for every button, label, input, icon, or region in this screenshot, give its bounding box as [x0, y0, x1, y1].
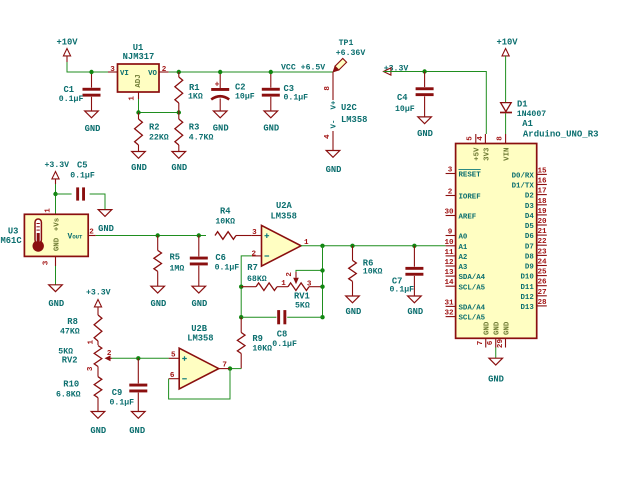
wire R9 to U2B out [230, 368, 241, 370]
junction out/feedback [320, 244, 324, 248]
svg-text:31: 31 [444, 299, 454, 307]
svg-text:D7: D7 [525, 243, 534, 251]
svg-text:C1: C1 [64, 85, 75, 95]
svg-text:GND: GND [171, 163, 187, 173]
wire C5 right to gnd [90, 194, 105, 210]
capacitor C8 [272, 310, 297, 349]
junction C1 [89, 70, 93, 74]
junction R1/R3 [177, 110, 181, 114]
svg-text:VOUT: VOUT [68, 233, 84, 242]
resistor R2 [135, 113, 169, 152]
svg-text:C4: C4 [397, 93, 408, 103]
resistor R6 [349, 246, 383, 296]
ground C2 [213, 111, 229, 134]
svg-text:C9: C9 [112, 388, 123, 398]
svg-text:M61C: M61C [1, 236, 23, 246]
ground U3 [48, 285, 64, 309]
svg-text:LM358: LM358 [341, 115, 367, 125]
pin 27 D12 [520, 289, 547, 302]
svg-text:LM358: LM358 [187, 333, 213, 343]
svg-text:C5: C5 [77, 160, 88, 170]
ground C3 [263, 111, 279, 134]
svg-text:4: 4 [477, 136, 485, 141]
svg-text:3: 3 [87, 366, 95, 371]
svg-text:0.1µF: 0.1µF [215, 263, 240, 272]
wire Vout rail [96, 235, 206, 237]
svg-text:10µF: 10µF [395, 105, 415, 114]
svg-text:20: 20 [537, 218, 547, 226]
svg-text:28: 28 [537, 299, 547, 307]
power +3.3V R8 [86, 289, 111, 315]
svg-text:8: 8 [497, 136, 505, 141]
power +10V right [496, 38, 518, 56]
junction C9 [136, 356, 140, 360]
pin 12 A3 [444, 259, 467, 272]
svg-text:1MΩ: 1MΩ [170, 264, 185, 273]
svg-text:8: 8 [324, 86, 332, 91]
capacitor C7 [390, 246, 424, 296]
junction R1 top [177, 70, 181, 74]
wire +10V to D1 [505, 56, 507, 103]
capacitor C6 [190, 236, 239, 287]
resistor R7 [241, 263, 288, 291]
svg-text:GND: GND [54, 237, 62, 251]
junction C8 right [320, 315, 324, 319]
svg-text:R3: R3 [189, 123, 200, 133]
pin 30 AREF [444, 209, 476, 222]
svg-text:7: 7 [222, 362, 227, 370]
pin 26 D11 [520, 279, 547, 292]
svg-text:RESET: RESET [459, 172, 482, 180]
svg-text:3: 3 [307, 280, 312, 288]
svg-text:R2: R2 [149, 123, 160, 133]
ground R10 [90, 412, 106, 437]
wire U2B feedback loop [169, 369, 230, 399]
wire VO to VCC [169, 71, 333, 73]
pin 7 GND [477, 321, 492, 347]
svg-text:GND: GND [345, 307, 361, 317]
svg-text:1: 1 [88, 339, 96, 344]
junction C5 [53, 192, 57, 196]
resistor R1 [175, 72, 203, 113]
svg-text:5: 5 [171, 351, 176, 359]
svg-text:D2: D2 [525, 193, 534, 201]
svg-text:GND: GND [494, 321, 502, 335]
wire arduino gnd [495, 348, 497, 359]
pin 2 IOREF [446, 189, 481, 202]
power +10V left [56, 38, 78, 63]
svg-text:D11: D11 [520, 284, 534, 292]
resistor R8 [60, 315, 102, 345]
svg-text:19: 19 [537, 208, 547, 216]
svg-text:24: 24 [537, 259, 547, 267]
svg-text:11: 11 [444, 249, 454, 257]
svg-text:14: 14 [444, 279, 454, 287]
pin 31 SDA/A4 [444, 299, 485, 312]
svg-text:2: 2 [448, 189, 453, 197]
svg-text:6: 6 [170, 372, 175, 380]
svg-text:A1: A1 [522, 119, 533, 129]
svg-text:1: 1 [45, 208, 53, 213]
svg-text:13: 13 [444, 269, 454, 277]
svg-text:GND: GND [85, 124, 101, 134]
pin 16 D1/TX [512, 178, 547, 191]
svg-text:4.7KΩ: 4.7KΩ [189, 133, 214, 142]
svg-text:GND: GND [263, 124, 279, 134]
svg-text:V-: V- [331, 120, 339, 129]
ground C9 [129, 412, 145, 437]
svg-text:D12: D12 [520, 294, 533, 302]
svg-text:3V3: 3V3 [484, 147, 492, 161]
pin 19 D4 [525, 208, 547, 221]
svg-text:1KΩ: 1KΩ [188, 93, 203, 102]
svg-text:U2C: U2C [341, 103, 358, 113]
svg-text:R1: R1 [189, 83, 200, 93]
wire C8 row right [287, 316, 322, 318]
svg-text:SCL/A5: SCL/A5 [459, 284, 486, 292]
pin 17 D2 [525, 188, 547, 201]
pin 14 SCL/A5 [444, 279, 485, 292]
ground C5 [98, 210, 114, 234]
wire U2A minus branch [241, 256, 252, 317]
svg-text:GND: GND [326, 165, 342, 175]
svg-text:NJM317: NJM317 [123, 52, 155, 62]
svg-text:GND: GND [407, 307, 423, 317]
svg-text:23: 23 [537, 248, 547, 256]
svg-text:GND: GND [191, 299, 207, 309]
svg-text:0.1µF: 0.1µF [110, 399, 135, 408]
junction ADJ/R2 [136, 110, 140, 114]
pin 8 VIN [497, 134, 512, 161]
test point TP1 [331, 39, 365, 74]
ground R5 [150, 286, 166, 309]
wire C5 left [56, 193, 72, 195]
wire ADJ row [139, 112, 179, 114]
svg-text:GND: GND [488, 375, 504, 385]
svg-text:V+: V+ [331, 100, 339, 109]
svg-text:D5: D5 [525, 223, 534, 231]
svg-text:12: 12 [444, 259, 454, 267]
svg-text:U3: U3 [8, 227, 19, 237]
svg-text:IOREF: IOREF [459, 194, 481, 202]
svg-text:+10V: +10V [496, 38, 518, 48]
wire 3V3 rail [384, 72, 487, 135]
ground C1 [85, 111, 101, 134]
svg-text:+6.36V: +6.36V [336, 49, 366, 58]
svg-text:VI: VI [120, 70, 129, 78]
svg-text:SDA/A4: SDA/A4 [459, 274, 486, 282]
svg-text:3: 3 [448, 167, 453, 175]
svg-text:RV2: RV2 [62, 356, 78, 366]
svg-text:GND: GND [48, 299, 64, 309]
junction C8 left [239, 315, 243, 319]
svg-text:C2: C2 [235, 82, 246, 92]
svg-text:7: 7 [477, 340, 485, 345]
ground R3 [171, 152, 187, 174]
wire C8 row left [241, 316, 276, 318]
svg-text:D8: D8 [525, 254, 534, 262]
op-amp U2A [252, 201, 309, 266]
svg-text:D4: D4 [525, 213, 534, 221]
svg-text:C3: C3 [284, 84, 295, 94]
ground C4 [417, 117, 433, 139]
svg-text:6: 6 [487, 340, 495, 345]
wire U3 gnd [55, 266, 57, 285]
svg-text:25: 25 [537, 269, 547, 277]
svg-text:32: 32 [444, 310, 454, 318]
svg-text:C8: C8 [277, 330, 288, 340]
svg-text:GND: GND [98, 224, 114, 234]
svg-text:21: 21 [537, 228, 547, 236]
svg-text:26: 26 [537, 279, 547, 287]
potentiometer RV1 [281, 272, 322, 311]
capacitor C9 [110, 358, 148, 411]
svg-text:SCL/A5: SCL/A5 [459, 315, 486, 323]
svg-text:R9: R9 [252, 334, 263, 344]
svg-text:2: 2 [162, 66, 167, 74]
junction C4 [422, 69, 426, 73]
pin 13 SDA/A4 [444, 269, 485, 282]
svg-text:+10V: +10V [56, 38, 78, 48]
svg-text:RV1: RV1 [294, 291, 310, 301]
capacitor C4 [395, 72, 434, 117]
svg-text:3: 3 [110, 66, 115, 74]
junction C6 [197, 233, 201, 237]
svg-text:27: 27 [537, 289, 547, 297]
diode D1 [500, 99, 546, 119]
op-amp U2C power pins [324, 72, 367, 151]
svg-text:GND: GND [417, 129, 433, 139]
svg-text:GND: GND [150, 299, 166, 309]
svg-text:1: 1 [129, 96, 137, 101]
svg-text:ADJ: ADJ [135, 74, 143, 87]
svg-text:1: 1 [281, 280, 286, 288]
ground U2C [326, 151, 342, 176]
svg-text:Arduino_UNO_R3: Arduino_UNO_R3 [523, 130, 599, 140]
junction C3 [269, 70, 273, 74]
sensor U3 M61C [1, 208, 96, 266]
pin 10 A1 [444, 239, 467, 252]
ground arduino [488, 358, 504, 384]
pin 9 A0 [446, 229, 468, 242]
svg-text:3: 3 [252, 229, 257, 237]
svg-text:A0: A0 [459, 234, 468, 242]
op-amp U2B [169, 324, 230, 389]
svg-text:GND: GND [484, 321, 492, 335]
pin 15 D0/RX [512, 167, 547, 180]
wire wiper to U2B plus [112, 357, 169, 359]
svg-text:A3: A3 [459, 264, 468, 272]
svg-text:18: 18 [537, 198, 547, 206]
svg-text:22: 22 [537, 238, 547, 246]
wire +3.3V to U3 [55, 184, 57, 214]
wire main top rail [67, 62, 108, 72]
wire ADJ down [138, 99, 140, 113]
svg-text:A2: A2 [459, 254, 468, 262]
pin 3 RESET [446, 167, 482, 180]
svg-text:10KΩ: 10KΩ [215, 217, 235, 226]
junction C2 [218, 70, 222, 74]
junction U2B out [228, 366, 232, 370]
svg-text:10KΩ: 10KΩ [252, 345, 272, 354]
svg-text:LM358: LM358 [271, 211, 297, 221]
svg-text:3: 3 [43, 260, 51, 265]
svg-text:+3.3V: +3.3V [45, 161, 70, 170]
capacitor C5 [70, 160, 95, 200]
pin 29 GND [497, 321, 512, 348]
svg-text:4: 4 [324, 134, 332, 139]
svg-text:17: 17 [537, 188, 547, 196]
junction R7 left [239, 285, 243, 289]
svg-text:D1: D1 [517, 99, 528, 109]
pin 23 D8 [525, 248, 547, 261]
pin 6 GND [487, 321, 502, 347]
wire feedback vertical [322, 246, 324, 317]
svg-text:10: 10 [444, 239, 454, 247]
svg-text:D1/TX: D1/TX [512, 183, 535, 191]
junction RV1 right [320, 285, 324, 289]
svg-text:+: + [215, 81, 220, 90]
wire RV1 wiper [296, 270, 323, 272]
svg-text:R4: R4 [220, 207, 231, 217]
capacitor C3 [262, 72, 308, 111]
junction wiper [320, 268, 324, 272]
pin 5 +5V [467, 134, 482, 161]
svg-text:VO: VO [148, 70, 157, 78]
svg-text:2: 2 [286, 272, 294, 277]
svg-text:D9: D9 [525, 264, 534, 272]
resistor R9 [237, 317, 272, 368]
svg-text:0.1µF: 0.1µF [59, 95, 84, 104]
pin 24 D9 [525, 259, 547, 272]
junction R6 [350, 244, 354, 248]
IC A1 Arduino_UNO_R3 [456, 119, 599, 338]
potentiometer RV2 [58, 339, 112, 376]
svg-text:15: 15 [537, 167, 547, 175]
svg-text:22KΩ: 22KΩ [149, 133, 169, 142]
svg-text:0.1µF: 0.1µF [272, 340, 297, 349]
svg-text:10µF: 10µF [235, 93, 255, 102]
svg-text:D10: D10 [520, 274, 534, 282]
svg-text:D6: D6 [525, 233, 534, 241]
resistor R3 [175, 113, 214, 152]
resistor R10 [56, 377, 102, 412]
svg-text:AREF: AREF [459, 214, 477, 222]
svg-text:GND: GND [213, 124, 229, 134]
svg-text:0.1µF: 0.1µF [390, 286, 415, 295]
pin 25 D10 [520, 269, 547, 282]
svg-text:2: 2 [107, 350, 112, 358]
svg-text:C6: C6 [215, 253, 226, 263]
wire U2A out to A1 [301, 245, 446, 247]
pin 32 SCL/A5 [444, 310, 485, 323]
pin 21 D6 [525, 228, 547, 241]
capacitor C2 polarized [211, 72, 255, 111]
ground C6 [191, 286, 207, 309]
pin 28 D13 [520, 299, 547, 312]
pin 20 D5 [525, 218, 547, 231]
svg-text:2: 2 [252, 251, 257, 259]
svg-text:0.1µF: 0.1µF [284, 94, 309, 103]
svg-text:D13: D13 [520, 304, 534, 312]
junction R5 [156, 233, 160, 237]
svg-text:6.8KΩ: 6.8KΩ [56, 390, 81, 399]
svg-text:D0/RX: D0/RX [512, 173, 535, 181]
svg-text:16: 16 [537, 178, 547, 186]
svg-text:R7: R7 [247, 263, 258, 273]
svg-text:29: 29 [497, 339, 505, 349]
svg-text:SDA/A4: SDA/A4 [459, 305, 486, 313]
svg-text:10KΩ: 10KΩ [363, 267, 383, 276]
svg-text:68KΩ: 68KΩ [247, 275, 267, 284]
junction C7 [412, 244, 416, 248]
svg-text:A1: A1 [459, 244, 468, 252]
svg-text:R5: R5 [170, 252, 181, 262]
svg-text:+5V: +5V [474, 147, 482, 161]
svg-text:GND: GND [90, 426, 106, 436]
svg-text:47KΩ: 47KΩ [60, 327, 80, 336]
capacitor C1 [59, 72, 101, 111]
svg-text:GND: GND [129, 426, 145, 436]
svg-text:GND: GND [131, 163, 147, 173]
svg-text:GND: GND [504, 321, 512, 335]
resistor R5 [154, 236, 184, 287]
resistor R4 [215, 207, 252, 240]
svg-text:+3.3V: +3.3V [86, 289, 111, 298]
svg-text:5: 5 [467, 136, 475, 141]
power +3.3V C5 [45, 161, 70, 184]
svg-text:1N4007: 1N4007 [517, 110, 547, 119]
pin 22 D7 [525, 238, 547, 251]
ground C7 [407, 296, 423, 317]
svg-text:9: 9 [448, 229, 453, 237]
pin 11 A2 [444, 249, 467, 262]
svg-text:R8: R8 [67, 317, 78, 327]
svg-text:0.1µF: 0.1µF [70, 172, 95, 181]
svg-text:5KΩ: 5KΩ [295, 302, 310, 311]
op-amp U1 NJM317 [108, 43, 169, 101]
pin 4 3V3 [477, 134, 492, 161]
svg-text:30: 30 [444, 209, 454, 217]
ground R2 [131, 152, 147, 174]
svg-text:VIN: VIN [504, 148, 512, 161]
pin 18 D3 [525, 198, 547, 211]
svg-text:TP1: TP1 [339, 39, 354, 48]
power +3.3V C4 rail [384, 64, 409, 75]
wire D1 to VIN [505, 113, 507, 134]
svg-text:VCC +6.5V: VCC +6.5V [281, 63, 325, 72]
svg-text:U2A: U2A [276, 201, 293, 211]
svg-text:+Vs: +Vs [54, 218, 62, 231]
ground R6 [345, 296, 361, 317]
svg-text:D3: D3 [525, 203, 534, 211]
svg-text:R10: R10 [63, 380, 79, 390]
